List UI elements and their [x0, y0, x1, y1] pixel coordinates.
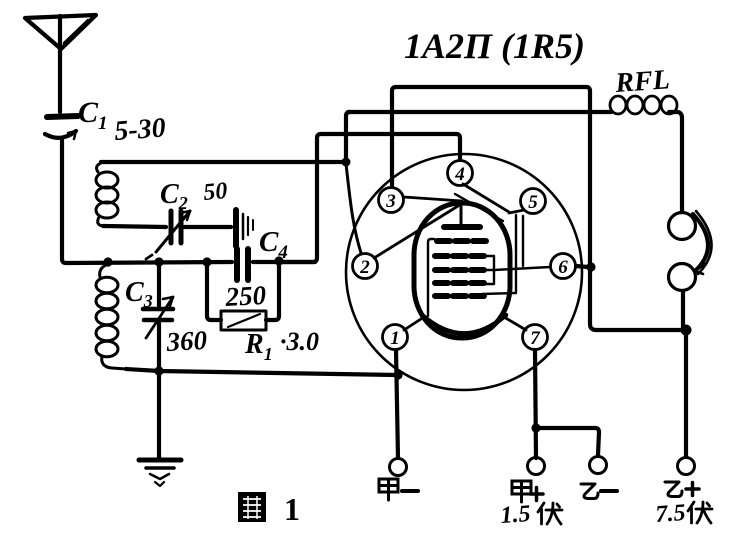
pin 2	[353, 254, 378, 279]
wire junction to terminal B-	[536, 428, 599, 455]
headphones	[669, 211, 712, 291]
node C3 bottom junction	[154, 366, 163, 375]
svg-text:·3.0: ·3.0	[280, 327, 319, 356]
coil RFL	[610, 96, 677, 114]
capacitor C3	[143, 264, 173, 371]
wire L1 bottom to C2	[103, 226, 166, 227]
title 1A2P (1R5)	[404, 26, 585, 66]
filament bowl	[422, 315, 506, 334]
label C1	[78, 96, 108, 134]
wire pin 7 diagonal to filament	[504, 317, 526, 330]
wire node A curve down to pin 2	[346, 164, 361, 253]
svg-text:3: 3	[385, 191, 396, 212]
figure label number 1	[284, 491, 300, 527]
wire pin 7 down to terminal A+	[535, 350, 536, 458]
wire C3 to ground	[157, 371, 161, 457]
svg-text:5: 5	[528, 192, 538, 213]
wire pin 3 to anode stem	[404, 197, 462, 201]
svg-text:1: 1	[284, 491, 300, 527]
wire pin 2 diagonal to anode stem	[374, 206, 458, 258]
coil L1	[96, 163, 118, 226]
label terminal A+ (jia plus) 1.5V	[500, 481, 562, 529]
pin 6	[551, 254, 576, 279]
label terminal A- (jia minus)	[379, 479, 418, 500]
label 5-30	[113, 112, 166, 147]
svg-text:RFL: RFL	[613, 64, 670, 99]
antenna	[25, 15, 96, 112]
label 250	[224, 280, 268, 312]
svg-text:50: 50	[202, 178, 228, 206]
capacitor C2	[146, 211, 190, 259]
capacitor C4	[237, 249, 248, 280]
pin 4	[448, 161, 473, 186]
node pin1 bus junction	[393, 370, 402, 379]
node pin7 junction	[531, 423, 540, 432]
svg-text:4: 4	[454, 164, 465, 185]
node bus junction 1	[103, 257, 112, 266]
wire pin 4 diagonal to shield	[463, 184, 509, 212]
wire C1 to main bus	[62, 140, 232, 263]
label C2	[160, 179, 188, 213]
label C4	[259, 226, 288, 263]
pin 1	[383, 325, 408, 350]
capacitor C4 upper plate with hatching	[236, 210, 253, 246]
svg-text:250: 250	[224, 280, 268, 312]
wire node A up to RFL line	[346, 112, 350, 160]
anode T electrode	[444, 203, 480, 227]
wire RFL to headphones	[669, 112, 682, 212]
terminal B+	[678, 458, 695, 475]
shield top diagonal pair	[455, 194, 523, 294]
figure label tu 圖	[238, 492, 266, 522]
wire headphone bottom to junction	[681, 291, 685, 330]
wire pin 5 diagonal to shield	[509, 210, 524, 213]
label 50	[202, 178, 228, 206]
pin 7	[523, 325, 548, 350]
svg-text:360: 360	[165, 325, 209, 357]
node bus junction 3	[202, 257, 211, 266]
wire grid bus up and over to pin 4	[279, 134, 460, 262]
node bus junction 2	[154, 257, 163, 266]
node pin 6 junction	[586, 262, 595, 271]
wire C2 to hatched plate	[184, 225, 231, 229]
svg-text:6: 6	[558, 257, 568, 278]
node headphone bottom junction	[681, 325, 692, 336]
svg-text:1: 1	[390, 328, 400, 349]
terminal A-	[390, 459, 407, 476]
wire pin 3 plate line	[392, 87, 683, 330]
ground	[139, 460, 181, 486]
label C3	[125, 277, 153, 311]
wire main bus right section	[253, 260, 315, 264]
svg-text:1.5: 1.5	[500, 501, 532, 529]
node bus junction 4	[274, 256, 283, 265]
label terminal B- (yi minus)	[581, 484, 617, 499]
terminal A+	[528, 458, 545, 475]
svg-text:5-30: 5-30	[113, 112, 166, 147]
resistor R1	[207, 263, 279, 330]
wire pin 6 stub to plate line	[576, 266, 588, 267]
label terminal B+ (yi plus) 7.5V	[655, 482, 712, 528]
wire pin 1 down to terminal A-	[396, 350, 398, 458]
tube U1 outer envelope circle	[346, 154, 582, 390]
grid box outline	[428, 239, 434, 316]
label RFL	[613, 64, 670, 99]
capacitor C1	[45, 116, 78, 139]
svg-text:7.5: 7.5	[655, 500, 687, 528]
wire pin 1 diagonal to filament	[404, 317, 424, 330]
svg-text:1A2Π (1R5): 1A2Π (1R5)	[404, 26, 585, 66]
grid dash rows	[435, 241, 486, 296]
wire L1 top to node A	[101, 160, 344, 164]
terminal B-	[590, 457, 607, 474]
pin 3	[379, 188, 404, 213]
pin 5	[521, 189, 546, 214]
wire RFL line	[348, 110, 611, 114]
node A tank top junction	[342, 158, 351, 167]
svg-text:7: 7	[530, 328, 541, 349]
label 360	[165, 325, 209, 357]
screen bracket to pin 6	[482, 256, 550, 284]
svg-text:2: 2	[359, 257, 370, 278]
coil L2	[96, 264, 126, 369]
label R1 3.0	[244, 327, 319, 364]
tube inner oval	[414, 203, 510, 338]
wire bottom bus to pin 1	[126, 369, 398, 375]
wire junction down to terminal B+	[684, 330, 688, 456]
